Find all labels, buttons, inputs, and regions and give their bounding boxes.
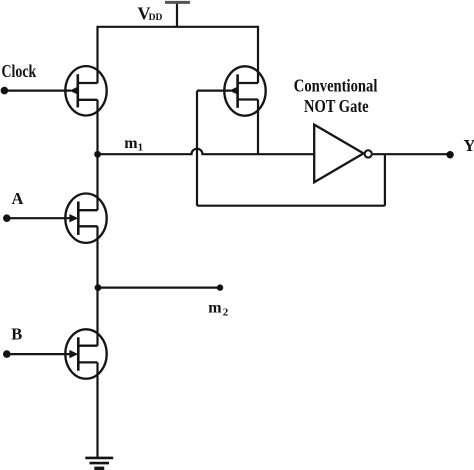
svg-text:Conventional: Conventional (294, 76, 378, 96)
svg-text:m: m (124, 135, 138, 152)
svg-text:1: 1 (138, 141, 144, 153)
svg-text:m: m (208, 300, 222, 317)
svg-text:B: B (11, 325, 22, 344)
svg-text:Y: Y (464, 136, 474, 155)
svg-text:Clock: Clock (2, 61, 37, 81)
svg-text:2: 2 (223, 306, 229, 318)
svg-text:NOT Gate: NOT Gate (304, 96, 369, 116)
svg-text:DD: DD (149, 13, 163, 23)
svg-text:A: A (12, 189, 24, 208)
